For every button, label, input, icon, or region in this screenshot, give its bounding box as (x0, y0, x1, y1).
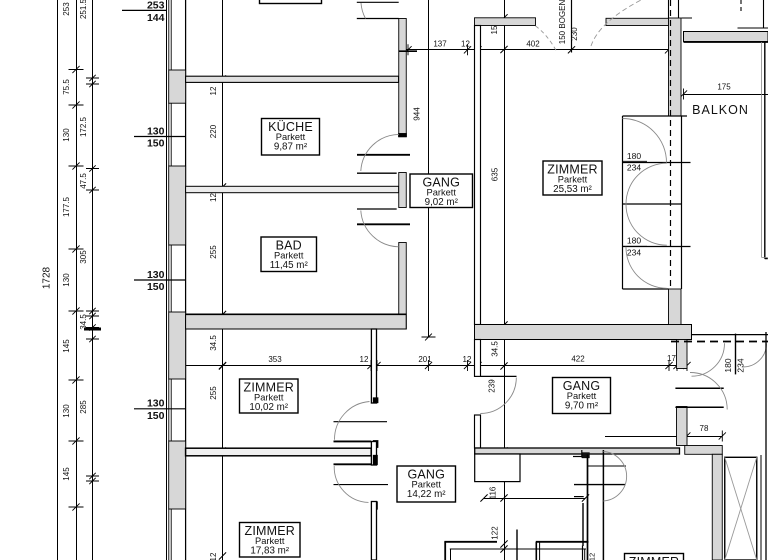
stair shaft rect (725, 457, 757, 560)
dim tick F y366 (500, 362, 507, 369)
svg-text:234: 234 (627, 163, 641, 173)
dim tick F y451 (500, 447, 507, 454)
svg-text:12: 12 (463, 355, 472, 364)
svg-text:12: 12 (461, 40, 470, 49)
wall entrance east lower x676-687 (677, 407, 688, 446)
wall cap door2 top (373, 455, 378, 465)
window jamb line y289 (623, 288, 669, 290)
dim tick mid x428.5 (425, 360, 432, 371)
svg-text:220: 220 (209, 124, 218, 138)
svg-text:234: 234 (736, 358, 746, 372)
svg-text:14,22 m²: 14,22 m² (407, 489, 446, 500)
dim tick F wall corner (500, 14, 507, 21)
svg-text:635: 635 (491, 167, 500, 181)
wall gang970 west lower (475, 415, 481, 448)
wall cap door2 bottom (373, 502, 378, 510)
bottom-right door lintel line (588, 465, 627, 467)
window glazing lines y509-560 (168, 509, 170, 560)
svg-text:BALKON: BALKON (692, 103, 749, 117)
entrance top line (692, 334, 768, 336)
svg-text:15: 15 (490, 25, 499, 34)
french window frame line x622.5 (622, 116, 624, 289)
wall zimmer west double line (475, 26, 481, 325)
kitchen door swing arc (361, 134, 399, 171)
zimmer1783 door arc (334, 466, 368, 502)
gang970 east door leaf lower (675, 406, 723, 408)
french window arc petal 1 (623, 119, 667, 163)
balcony wall bottom edge (684, 41, 768, 43)
svg-text:239: 239 (488, 379, 497, 393)
svg-text:285: 285 (79, 400, 88, 414)
svg-text:47.5: 47.5 (79, 173, 88, 189)
svg-text:150: 150 (147, 281, 165, 293)
wall gang970 west upper (475, 340, 481, 377)
wall zimmer east thick lower (669, 289, 682, 325)
wall cap door1 top (373, 398, 378, 404)
balcony wall top (684, 32, 768, 42)
dim tick E y337 (422, 334, 436, 341)
dim tick C y84 (86, 81, 99, 87)
room label KUECHE (262, 119, 320, 156)
french window fraction line #2 (622, 245, 647, 247)
room label ZIMMER 17,83 (240, 523, 301, 558)
wall left-exterior masonry pier 4 (169, 441, 186, 509)
svg-text:180: 180 (627, 151, 641, 161)
room bottom-right west wall line (587, 455, 589, 560)
dim tick C y481 (86, 478, 99, 484)
wall zimmer1002 east segment A (371, 329, 376, 403)
dim line horizontal 116 y498 (484, 498, 586, 500)
dim line horizontal top y49.8 (405, 49, 669, 51)
window label 130/150 #3 fraction line (134, 408, 186, 410)
room label ZIMMER bottom (cut) (625, 554, 684, 560)
bath door leaf line (357, 223, 410, 225)
svg-text:34.5: 34.5 (491, 341, 500, 357)
dim tick top x467.5 (464, 44, 471, 55)
svg-text:145: 145 (62, 467, 71, 481)
window glazing lines y245-312 (168, 245, 170, 312)
dim line vertical F x504 (504, 0, 506, 560)
dim line vertical C x92.5 (92, 0, 94, 560)
gang970 west door leaf (481, 375, 517, 377)
wall south H2 right (536, 541, 589, 543)
window glazing lines y0-70 (168, 0, 170, 70)
zimmer1002 door bottom jamb (334, 440, 372, 442)
svg-text:172.5: 172.5 (79, 116, 88, 137)
window jamb line y246.5 (623, 246, 691, 248)
dim thick bar C y329 (84, 328, 101, 331)
dim tick balcony (680, 89, 687, 100)
svg-text:402: 402 (526, 40, 540, 49)
dim tick C y339 (86, 336, 99, 342)
wall zimmer east segment C (371, 502, 376, 560)
room label BAD (261, 237, 317, 272)
svg-text:150: 150 (147, 138, 165, 150)
svg-text:145: 145 (62, 339, 71, 353)
window jamb line y116 (623, 115, 688, 117)
dim tick D y314.5 (219, 311, 226, 318)
entrance door arc left (692, 343, 725, 376)
dim tick C y311 (86, 308, 99, 314)
stair shaft diagonal 1 (725, 457, 757, 560)
svg-text:12: 12 (209, 193, 218, 202)
window jamb line y204 (623, 203, 682, 205)
wall left-exterior inner face (185, 0, 187, 560)
bottom-right door half-circle arc (603, 452, 626, 502)
svg-text:150 BOGEN: 150 BOGEN (558, 0, 567, 44)
dim line horizontal 78 y436 (605, 436, 722, 438)
french window arc petal 2 (626, 163, 667, 204)
svg-text:Parkett: Parkett (274, 251, 304, 261)
dim tick B y249 (69, 245, 84, 252)
dim tick mid x669 (665, 360, 672, 371)
dim tick C y78 (86, 75, 99, 81)
dim tick C y190 (86, 187, 99, 193)
wall stub right of gang top (399, 50, 417, 52)
bogen dashed arc left (536, 26, 558, 52)
svg-text:Parkett: Parkett (558, 175, 588, 185)
wall zimmer east thick upper (669, 18, 682, 116)
window label 253/144 fraction line (122, 9, 166, 11)
window jamb line y162.5 (623, 162, 691, 164)
room label GANG 14,22 (397, 466, 456, 502)
dim tick D y556 (219, 552, 226, 559)
svg-text:144: 144 (147, 12, 165, 24)
dim tick mid x677 (673, 360, 680, 371)
top-right corner horizontal line (738, 27, 768, 29)
room bottom-right inner wall line (602, 450, 604, 560)
building outer edge line right (765, 332, 767, 560)
dim tick top x478 (474, 44, 481, 55)
gang970 west door arc (480, 378, 516, 414)
wall gang-west segment 2 (399, 173, 407, 208)
french window arc petal 3 (626, 204, 667, 245)
stair shaft diagonal 2 (725, 457, 757, 560)
svg-text:Parkett: Parkett (276, 132, 306, 142)
dim tick F y544 (500, 540, 507, 547)
room bottom-right corner cap (582, 453, 590, 459)
dim tick mid x687 (683, 360, 690, 371)
wall left-exterior masonry pier 1 (169, 70, 186, 103)
dim tick B y69.5 (69, 66, 84, 73)
dim tick mid x371 (367, 360, 374, 371)
dim tick D y366 (219, 362, 226, 369)
french window fraction line #1 (622, 160, 647, 162)
balcony railing outer (764, 42, 766, 259)
wall gang-west segment 1 (399, 19, 407, 137)
dim tick mid x478 (474, 360, 481, 371)
svg-text:11,45 m²: 11,45 m² (270, 260, 309, 271)
dim tick F y549 (500, 545, 507, 552)
bath door jamb line (357, 208, 397, 210)
dim tick C y168.5 (86, 165, 99, 171)
entrance door arc right (743, 344, 767, 368)
bogen dim tick (568, 46, 575, 53)
wall south H2 left (444, 541, 497, 543)
bath door swing arc (361, 211, 399, 247)
svg-text:255: 255 (209, 245, 218, 259)
bogen fraction line vertical (571, 0, 573, 53)
wall left-exterior masonry pier 3 (169, 312, 186, 379)
bogen dashed arc right (591, 0, 641, 46)
svg-text:Parkett: Parkett (412, 480, 442, 490)
dim tick B y507 (69, 503, 84, 510)
entrance dashed threshold (671, 341, 768, 343)
bottom-right shelf line (574, 484, 625, 486)
wall gang-west segment 3 (399, 243, 407, 330)
dim tick B y441 (69, 437, 84, 444)
svg-text:25,53 m²: 25,53 m² (553, 184, 592, 195)
wall divider zimmer1002/1783 (186, 448, 372, 456)
svg-text:944: 944 (413, 107, 422, 121)
svg-text:251.5: 251.5 (79, 0, 88, 19)
balcony railing corner (762, 256, 768, 258)
svg-text:353: 353 (268, 355, 282, 364)
svg-text:9,87 m²: 9,87 m² (274, 142, 308, 153)
room label box top (cut) (260, 0, 322, 4)
wall kitchen/bath divider y186-193 (186, 186, 399, 192)
svg-text:75.5: 75.5 (62, 79, 71, 95)
svg-text:137: 137 (433, 40, 447, 49)
svg-text:180: 180 (627, 236, 641, 246)
svg-text:12: 12 (588, 553, 597, 560)
svg-text:122: 122 (491, 526, 500, 540)
dim line horizontal middle y365.5 (186, 365, 687, 367)
kitchen door jamb line (357, 172, 397, 174)
dim tick D y451 (219, 447, 226, 454)
dim line vertical E x428.5 (428, 0, 430, 337)
kitchen door leaf line (357, 154, 410, 156)
zimmer1002 door arc (334, 402, 369, 440)
top-right dashed stub (740, 0, 742, 12)
bottom-right notch lines (573, 456, 582, 458)
dim line vertical B x76 (76, 0, 78, 560)
svg-text:150: 150 (147, 410, 165, 422)
svg-text:10,02 m²: 10,02 m² (249, 402, 288, 413)
svg-text:130: 130 (62, 404, 71, 418)
dim tick B y166 (69, 162, 84, 169)
svg-text:180: 180 (723, 358, 733, 372)
svg-text:130: 130 (147, 398, 165, 410)
room label GANG 9,02 (410, 174, 473, 208)
gang970 east door arc (690, 372, 727, 409)
window label 130/150 #2 fraction line (134, 279, 186, 281)
svg-text:305: 305 (79, 250, 88, 264)
dim tick top x668.5 (665, 44, 672, 55)
french window arc petal 4 (626, 247, 667, 289)
wall zimmer top-right segment (606, 18, 669, 25)
dim tick B y380 (69, 376, 84, 383)
dim line vertical A x57 (57, 0, 59, 560)
H2 bottom stub pair (582, 546, 584, 560)
svg-text:9,70 m²: 9,70 m² (565, 401, 599, 412)
dim tick F y49.5 (500, 46, 507, 53)
window glazing lines y103-166 (168, 103, 170, 166)
svg-text:12: 12 (360, 355, 369, 364)
top room door opening line (357, 18, 399, 20)
svg-text:34.5: 34.5 (209, 335, 218, 351)
svg-text:34.5: 34.5 (79, 314, 88, 330)
dim tick C y476 (86, 473, 99, 479)
dim line horizontal balcony y94 (684, 94, 768, 96)
room label ZIMMER 10,02 (240, 379, 299, 413)
svg-text:130: 130 (147, 125, 165, 137)
svg-text:130: 130 (62, 273, 71, 287)
zimmer1783 door top jamb (334, 463, 372, 465)
zimmer1002 door sill line (334, 421, 388, 423)
dim tick F y325 (500, 321, 507, 328)
wall left-exterior masonry pier 2 (169, 166, 186, 245)
svg-text:Parkett: Parkett (254, 393, 284, 403)
svg-text:ZIMMER: ZIMMER (629, 555, 680, 560)
wall zimmer top-left segment (475, 18, 536, 26)
wall face line x681 at window zone (681, 116, 683, 289)
wall entrance east upper x676-687 (677, 340, 688, 369)
svg-text:12: 12 (209, 86, 218, 95)
window glazing lines y379-441 (168, 379, 170, 441)
dim tick B y311 (69, 307, 84, 314)
wall stub x517 (516, 530, 518, 560)
wall big horizontal west y314-329 (186, 314, 407, 329)
dim tick mid x222.5 (219, 360, 226, 371)
svg-text:17: 17 (667, 354, 676, 363)
dim tick D y79 (219, 75, 226, 82)
wall above balcony lines (668, 0, 670, 18)
dim tick D y187 (219, 183, 226, 190)
dim tick mid x377 (373, 360, 380, 371)
zimmer1783 door sill line (334, 484, 389, 486)
wall left-exterior outer face (166, 0, 168, 560)
balcony wall stub line (682, 17, 693, 19)
wall cap door1 bottom (373, 440, 378, 448)
svg-text:234: 234 (627, 248, 641, 258)
svg-text:201: 201 (418, 355, 432, 364)
svg-text:116: 116 (489, 486, 498, 499)
svg-text:17,83 m²: 17,83 m² (250, 546, 289, 557)
wall axis dashed x670 (670, 0, 672, 288)
stair shaft outer line (760, 455, 762, 560)
window label 130/150 #1 fraction line (134, 136, 186, 138)
wall kitchen top y76-82 (186, 76, 399, 82)
svg-text:130: 130 (147, 269, 165, 281)
svg-text:1728: 1728 (42, 266, 53, 289)
top room door leaf line (357, 1, 399, 3)
svg-text:253: 253 (62, 2, 71, 16)
svg-text:175: 175 (717, 83, 731, 92)
wall zimmer east segment B (371, 442, 376, 466)
dim tick top x408 (404, 44, 411, 55)
svg-text:Parkett: Parkett (567, 391, 597, 401)
top room door swing arc (361, 3, 366, 19)
svg-text:12: 12 (209, 552, 218, 560)
dim tick B y105 (69, 101, 84, 108)
svg-text:422: 422 (571, 354, 585, 363)
dim tick C y327.5 (86, 324, 99, 330)
svg-text:255: 255 (209, 386, 218, 400)
svg-text:Parkett: Parkett (427, 188, 457, 198)
wall gang970 top y324.5-339.5 (475, 325, 692, 340)
bottom-right stub wall lower (582, 503, 584, 546)
bottom-right shelf stub (574, 496, 584, 498)
closet box below H1 (475, 454, 520, 482)
svg-text:177.5: 177.5 (62, 196, 71, 217)
svg-text:230: 230 (570, 27, 579, 41)
wall stair west vertical (712, 454, 722, 560)
svg-text:130: 130 (62, 128, 71, 142)
dim tick mid x467.5 (464, 360, 471, 371)
balcony railing inner (761, 42, 763, 257)
room label GANG 9,70 (553, 378, 611, 414)
svg-text:Parkett: Parkett (255, 536, 285, 546)
dim line vertical D x222.5 (222, 0, 224, 560)
wall gang-west door jamb bar (398, 133, 406, 137)
svg-text:78: 78 (700, 424, 709, 433)
wall entrance corner horizontal (685, 446, 723, 455)
dim tick C y316 (86, 313, 99, 319)
svg-text:9,02 m²: 9,02 m² (425, 197, 459, 208)
room label ZIMMER 25,53 (543, 161, 602, 195)
top-right corner vertical line (763, 0, 765, 28)
entrance door fraction line vertical (735, 334, 737, 375)
gang970 east door leaf upper (675, 387, 723, 389)
dim tick F y498 (500, 494, 507, 501)
wall gang-south room top H1 (475, 448, 680, 454)
svg-text:253: 253 (147, 0, 165, 12)
